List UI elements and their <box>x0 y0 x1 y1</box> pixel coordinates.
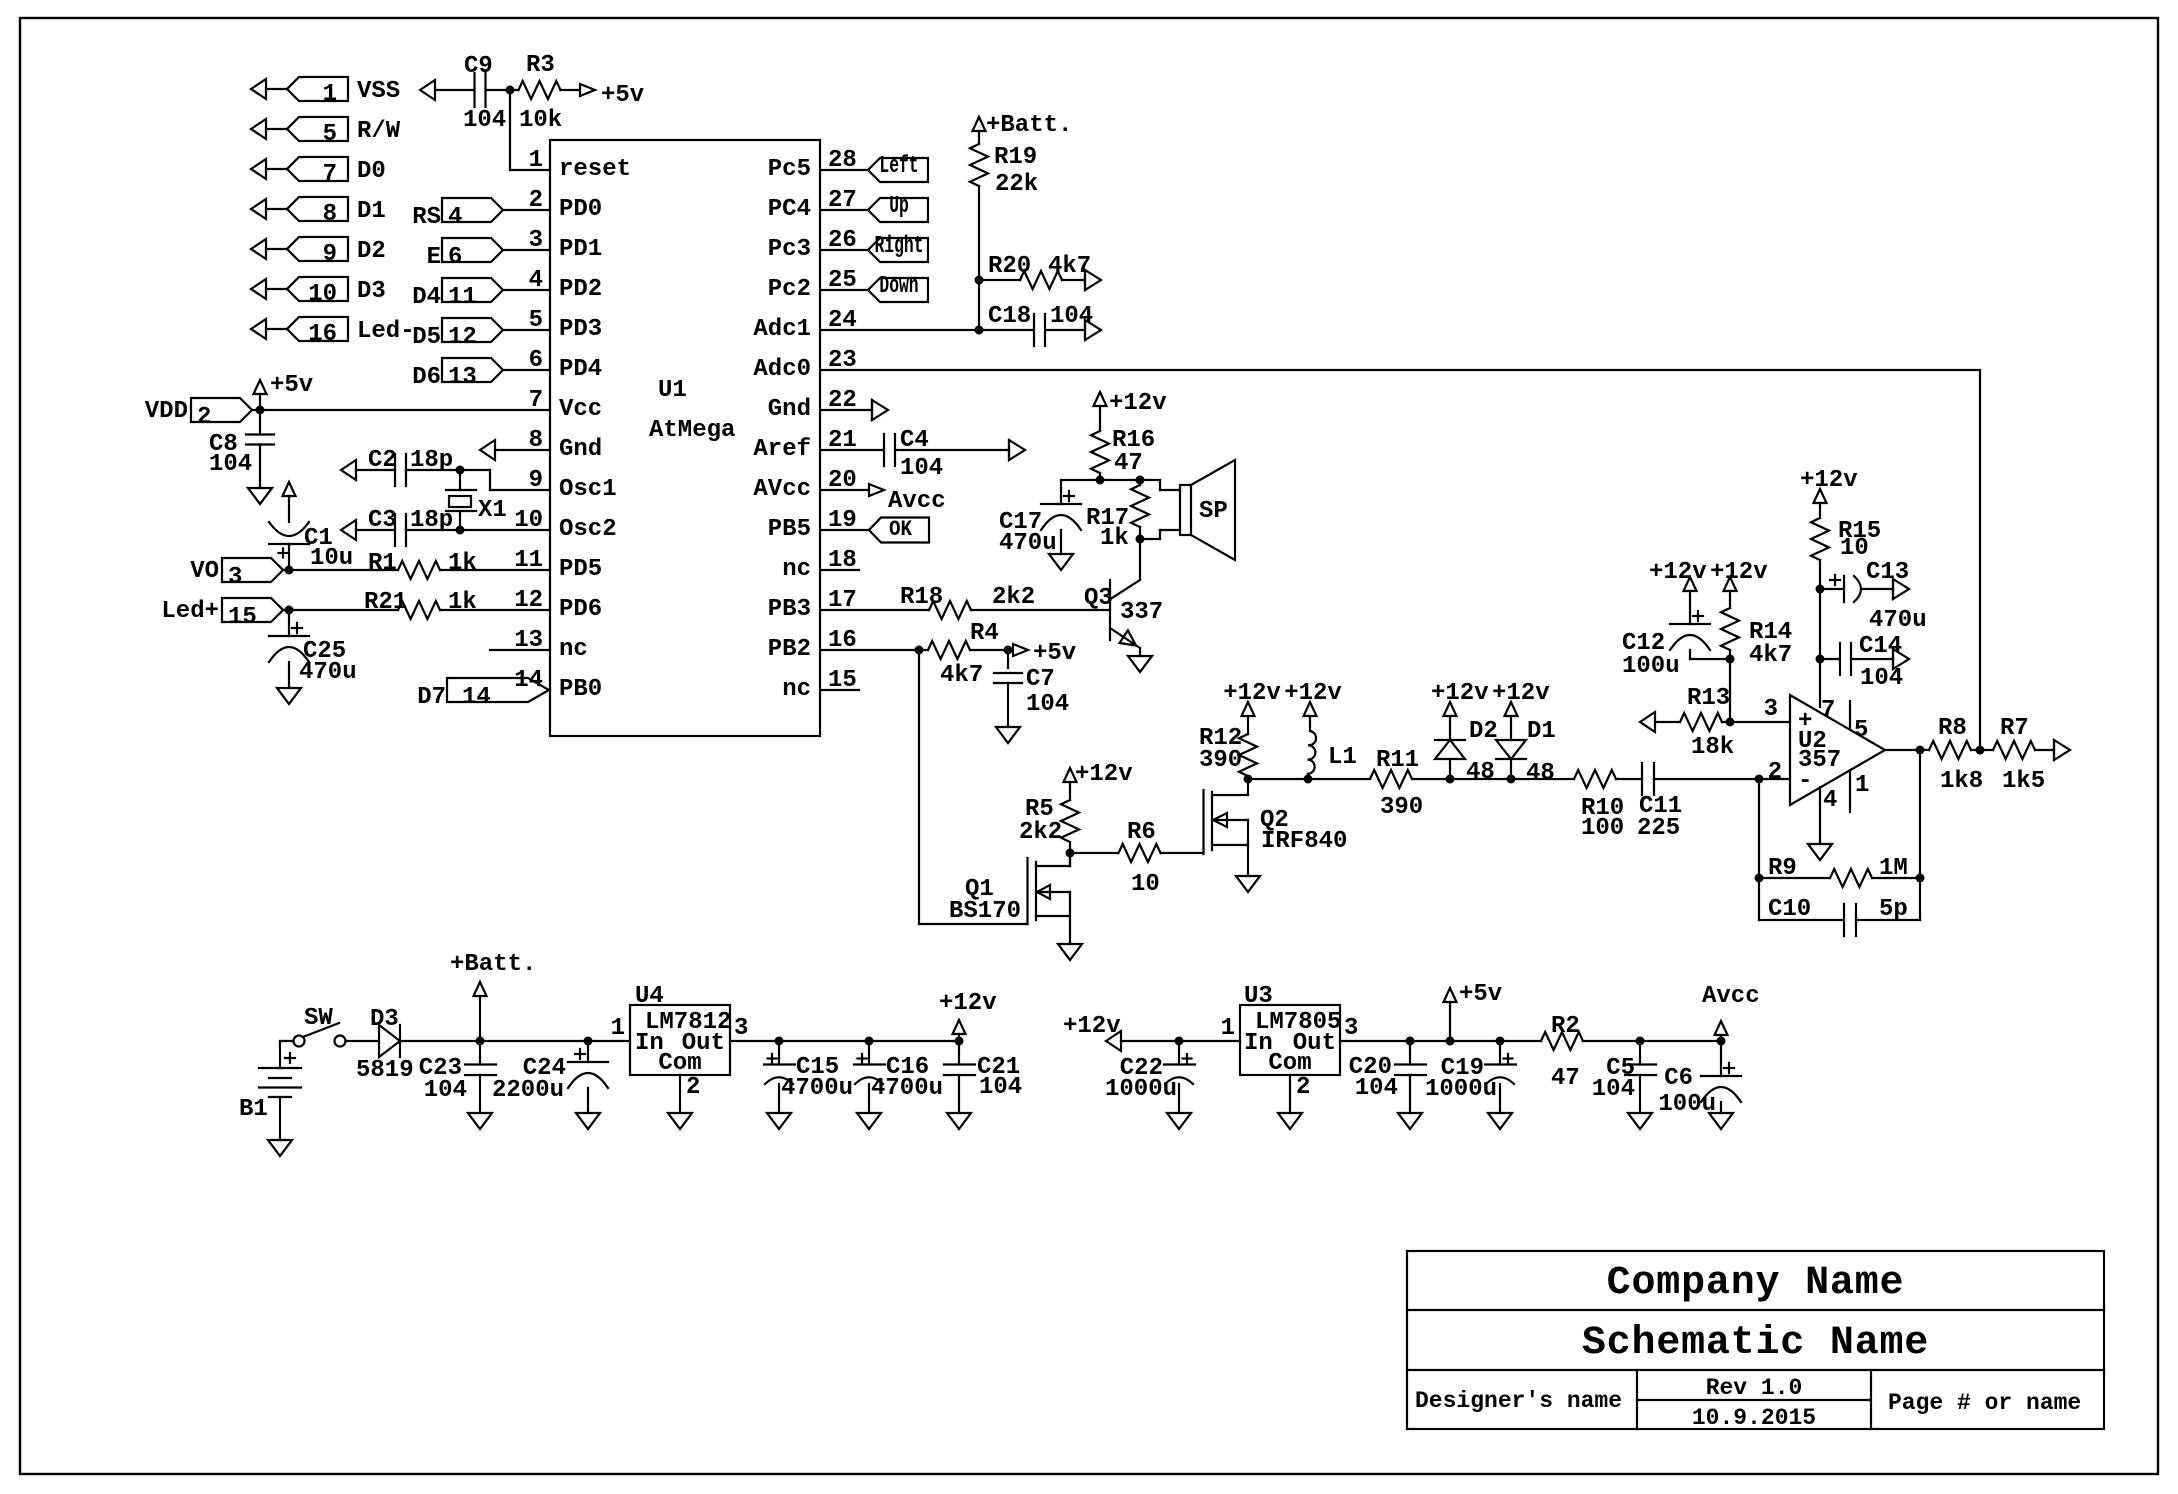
svg-text:Adc1: Adc1 <box>753 316 811 343</box>
tag Up <box>821 209 868 211</box>
connector pin 5 R/W <box>251 119 266 139</box>
resistor R9 <box>1830 869 1872 887</box>
svg-text:PD0: PD0 <box>559 196 602 223</box>
wire Adc1 pin24 <box>821 329 979 331</box>
svg-text:C10: C10 <box>1768 896 1811 923</box>
wire <box>1583 1040 1640 1042</box>
off-page arrow R20 <box>1085 270 1101 290</box>
node C19 <box>1496 1037 1505 1046</box>
connector pin 7 D0 <box>251 159 266 179</box>
wire <box>1070 852 1118 854</box>
svg-text:nc: nc <box>782 676 811 703</box>
resistor R14 <box>1721 608 1739 650</box>
svg-text:R21: R21 <box>364 589 407 616</box>
node R12/Q2 drain <box>1244 775 1253 784</box>
node PB2/R4/Q1gate <box>915 646 924 655</box>
regulator U4 LM7812 box <box>630 1005 730 1075</box>
speaker SP <box>1180 485 1191 535</box>
svg-text:R19: R19 <box>994 144 1037 171</box>
node C9/R3 junction <box>506 86 515 95</box>
capacitor C19 electrolytic <box>1485 1063 1516 1065</box>
svg-text:10: 10 <box>1840 535 1869 562</box>
power +12v arrow D2 <box>1444 702 1457 716</box>
svg-text:+12v: +12v <box>1492 680 1550 707</box>
wire <box>821 609 929 611</box>
inductor L1 <box>1309 731 1316 745</box>
svg-text:Gnd: Gnd <box>559 436 602 463</box>
svg-text:Left: Left <box>879 153 918 180</box>
svg-text:D3: D3 <box>357 278 386 305</box>
svg-text:D2: D2 <box>1469 718 1498 745</box>
power +12v arrow L1 <box>1304 702 1317 716</box>
svg-text:+12v: +12v <box>1063 1013 1121 1040</box>
node R4/C7 <box>1004 646 1013 655</box>
svg-text:16: 16 <box>308 321 337 348</box>
svg-text:10k: 10k <box>519 107 562 134</box>
off-page arrow C18 <box>1085 320 1101 340</box>
resistor R17 <box>1131 485 1149 527</box>
power +12v arrow R14 <box>1724 577 1737 591</box>
resistor R1 <box>398 561 440 579</box>
svg-text:Com: Com <box>658 1050 701 1077</box>
capacitor C10 <box>1759 919 1844 921</box>
resistor R2 <box>1541 1032 1583 1050</box>
svg-text:100u: 100u <box>1622 653 1680 680</box>
svg-text:104: 104 <box>979 1074 1022 1101</box>
svg-text:L1: L1 <box>1328 744 1357 771</box>
svg-text:PD2: PD2 <box>559 276 602 303</box>
svg-text:+12v: +12v <box>1431 680 1489 707</box>
svg-text:R4: R4 <box>970 620 999 647</box>
regulator U3 LM7805 box <box>1240 1005 1340 1075</box>
off-page arrow C4 <box>1009 440 1025 460</box>
svg-text:100u: 100u <box>1658 1091 1716 1118</box>
svg-text:11: 11 <box>448 284 477 311</box>
node R17/Q3/speaker <box>1136 535 1145 544</box>
svg-text:1: 1 <box>323 81 337 108</box>
svg-text:1: 1 <box>1855 772 1869 799</box>
svg-text:Right: Right <box>875 233 924 260</box>
ground C23 <box>468 1113 492 1129</box>
connector pin 10 D3 <box>251 279 266 299</box>
ground C17 <box>1049 554 1073 570</box>
node R5/R6/Q1 drain <box>1066 849 1075 858</box>
svg-text:1: 1 <box>611 1015 625 1042</box>
svg-text:nc: nc <box>559 636 588 663</box>
svg-text:+5v: +5v <box>1459 981 1502 1008</box>
svg-text:1k: 1k <box>448 589 477 616</box>
wire <box>978 280 980 330</box>
switch SW <box>294 1036 305 1047</box>
ground C5 <box>1628 1113 1652 1129</box>
off-page arrow R13 <box>1640 712 1655 732</box>
wire <box>1729 650 1731 722</box>
wire <box>1161 852 1204 854</box>
capacitor C18 <box>979 329 1034 331</box>
capacitor C1 electrolytic <box>269 522 309 536</box>
svg-text:4k7: 4k7 <box>1749 642 1792 669</box>
svg-text:Com: Com <box>1268 1050 1311 1077</box>
capacitor C4 <box>821 449 884 451</box>
svg-text:U4: U4 <box>635 983 664 1010</box>
svg-text:PD5: PD5 <box>559 556 602 583</box>
svg-text:R20: R20 <box>988 253 1031 280</box>
capacitor C12 electrolytic <box>1670 623 1710 625</box>
title vertical divider right <box>1870 1370 1872 1429</box>
ground C6 <box>1709 1113 1733 1129</box>
node C24 <box>584 1037 593 1046</box>
wire Adc0 pin23 <box>821 369 1980 371</box>
svg-text:C9: C9 <box>464 53 493 80</box>
wire speaker top <box>1140 479 1160 481</box>
svg-text:Up: Up <box>889 193 909 220</box>
ground C22 <box>1167 1113 1191 1129</box>
wire U4 out <box>730 1040 959 1042</box>
node C16 <box>865 1037 874 1046</box>
capacitor C11 <box>1641 763 1643 795</box>
svg-text:Down: Down <box>879 273 918 300</box>
node C5 <box>1636 1037 1645 1046</box>
title vertical divider left <box>1636 1370 1638 1429</box>
svg-text:PD1: PD1 <box>559 236 602 263</box>
node D2 anode <box>1446 775 1455 784</box>
svg-text:5: 5 <box>323 121 337 148</box>
wire <box>486 89 519 91</box>
svg-text:10.9.2015: 10.9.2015 <box>1692 1405 1816 1431</box>
svg-text:Rev 1.0: Rev 1.0 <box>1706 1375 1803 1401</box>
wire PB2 to Q1 gate <box>918 650 920 924</box>
capacitor C3 <box>394 514 396 546</box>
node VO/C1/R1 <box>285 566 294 575</box>
svg-text:+Batt.: +Batt. <box>450 951 536 978</box>
capacitor C16 electrolytic <box>854 1063 885 1065</box>
svg-text:+12v: +12v <box>1075 761 1133 788</box>
svg-text:Q3: Q3 <box>1084 585 1113 612</box>
off-page arrow output <box>2054 740 2070 760</box>
wire Q3 collector <box>1139 539 1141 580</box>
svg-text:R8: R8 <box>1938 715 1967 742</box>
off-page arrow C2 <box>341 460 356 480</box>
node R8/R7 feedback <box>1976 746 1985 755</box>
op-amp U2 triangle <box>1790 695 1885 805</box>
svg-text:225: 225 <box>1637 815 1680 842</box>
svg-text:2k2: 2k2 <box>1019 819 1062 846</box>
svg-text:5p: 5p <box>1879 896 1908 923</box>
power +Batt arrow <box>474 982 487 996</box>
off-page arrow Gnd pin22 <box>821 409 872 411</box>
svg-text:E: E <box>427 244 441 271</box>
svg-text:C7: C7 <box>1026 666 1055 693</box>
svg-text:D2: D2 <box>357 238 386 265</box>
diode D3 5819 <box>379 1025 400 1057</box>
wire <box>2035 749 2054 751</box>
resistor R12 <box>1239 734 1257 776</box>
svg-text:Adc0: Adc0 <box>753 356 811 383</box>
wire <box>895 449 1009 451</box>
svg-text:10: 10 <box>1131 871 1160 898</box>
svg-text:SP: SP <box>1199 498 1228 525</box>
node pin2 <box>1755 775 1764 784</box>
node C20 <box>1406 1037 1415 1046</box>
svg-text:3: 3 <box>1344 1015 1358 1042</box>
svg-text:PB3: PB3 <box>768 596 811 623</box>
svg-text:Osc1: Osc1 <box>559 476 617 503</box>
off-page arrow C3 <box>341 520 356 540</box>
wire <box>280 1040 294 1042</box>
svg-text:47: 47 <box>1551 1065 1580 1092</box>
capacitor C5 <box>1625 1063 1656 1065</box>
svg-text:9: 9 <box>323 241 337 268</box>
ground Q2 <box>1236 876 1260 892</box>
node C18/Adc1 <box>975 326 984 335</box>
wire <box>1308 778 1370 780</box>
svg-text:+12v: +12v <box>939 990 997 1017</box>
wire <box>1819 560 1821 707</box>
node Led+/R21/C25 <box>285 606 294 615</box>
svg-text:R/W: R/W <box>357 118 401 145</box>
svg-text:3: 3 <box>228 564 242 591</box>
ground Q3 <box>1128 656 1152 672</box>
svg-text:R13: R13 <box>1687 685 1730 712</box>
svg-text:C13: C13 <box>1866 559 1909 586</box>
svg-text:C3: C3 <box>368 507 397 534</box>
svg-text:AVcc: AVcc <box>753 476 811 503</box>
capacitor C13 electrolytic <box>1820 588 1844 590</box>
capacitor C2 <box>394 454 396 486</box>
power +12v arrow R16 <box>1094 392 1107 406</box>
wire Vcc pin7 <box>260 409 550 411</box>
svg-text:104: 104 <box>900 455 943 482</box>
svg-text:R2: R2 <box>1551 1013 1580 1040</box>
svg-text:2: 2 <box>686 1074 700 1101</box>
svg-text:+12v: +12v <box>1800 467 1858 494</box>
svg-text:+5v: +5v <box>601 82 644 109</box>
wire <box>1069 842 1071 866</box>
svg-text:RS: RS <box>412 204 441 231</box>
ground C25 <box>277 688 301 704</box>
tag OK <box>821 529 869 531</box>
node L1/R11 <box>1304 775 1313 784</box>
svg-text:BS170: BS170 <box>949 898 1021 925</box>
connector pin 1 VSS <box>251 79 266 99</box>
svg-text:104: 104 <box>209 451 252 478</box>
wire nc pin18 stub <box>821 569 859 571</box>
power arrow above C1 <box>283 482 296 496</box>
wire <box>1062 279 1085 281</box>
node C2/X1 <box>456 466 465 475</box>
node C6/Avcc <box>1717 1037 1726 1046</box>
svg-text:3: 3 <box>1764 696 1778 723</box>
resistor R18 <box>929 601 971 619</box>
svg-text:4: 4 <box>448 204 462 231</box>
power +12v arrow C12 <box>1684 577 1697 591</box>
ground C7 <box>996 727 1020 743</box>
svg-text:D1: D1 <box>1527 718 1556 745</box>
svg-text:PC4: PC4 <box>768 196 811 223</box>
svg-text:7: 7 <box>323 161 337 188</box>
wire <box>1046 329 1086 331</box>
svg-text:Osc2: Osc2 <box>559 516 617 543</box>
ic U1 AtMega box <box>550 140 820 736</box>
svg-text:nc: nc <box>782 556 811 583</box>
power +12v arrow above C21 <box>953 1020 966 1034</box>
svg-text:R9: R9 <box>1768 855 1797 882</box>
node C21 <box>955 1037 964 1046</box>
svg-text:2: 2 <box>1768 759 1782 786</box>
svg-text:C14: C14 <box>1859 633 1902 660</box>
svg-text:+5v: +5v <box>270 372 313 399</box>
off-page arrow C9 left <box>420 80 435 100</box>
svg-text:Gnd: Gnd <box>768 396 811 423</box>
capacitor C23 <box>465 1063 496 1065</box>
svg-text:+Batt.: +Batt. <box>986 112 1072 139</box>
resistor R20 <box>979 279 1020 281</box>
ground C20 <box>1398 1113 1422 1129</box>
svg-text:D0: D0 <box>357 158 386 185</box>
svg-text:+12v: +12v <box>1284 680 1342 707</box>
svg-text:OK: OK <box>889 517 913 542</box>
power +5v arrow <box>1013 644 1028 656</box>
node VDD junction <box>256 406 265 415</box>
svg-text:R11: R11 <box>1376 747 1419 774</box>
transistor Q2 IRF840 <box>1202 790 1204 854</box>
resistor R6 <box>1119 844 1161 862</box>
resistor R4 <box>928 641 970 659</box>
title rev/date divider <box>1637 1399 1871 1401</box>
svg-text:10u: 10u <box>310 545 353 572</box>
svg-text:PD6: PD6 <box>559 596 602 623</box>
wire <box>440 569 550 571</box>
node R9 right <box>1916 874 1925 883</box>
resistor R16 <box>1091 431 1109 473</box>
wire <box>1511 778 1574 780</box>
svg-text:VO: VO <box>190 558 219 585</box>
wire output <box>1885 749 1929 751</box>
wire <box>1872 877 1920 879</box>
resistor R21 <box>398 601 440 619</box>
ground C19 <box>1488 1113 1512 1129</box>
capacitor C15 electrolytic <box>764 1063 795 1065</box>
svg-text:14: 14 <box>514 667 543 694</box>
svg-text:1k8: 1k8 <box>1940 768 1983 795</box>
wire PB2 pin16 <box>821 649 919 651</box>
diode D2 <box>1435 739 1465 741</box>
op-amp pin5 stub <box>1849 701 1851 729</box>
svg-text:Pc2: Pc2 <box>768 276 811 303</box>
svg-text:Pc5: Pc5 <box>768 156 811 183</box>
capacitor C9 <box>473 73 475 107</box>
capacitor C8 <box>259 410 261 435</box>
svg-text:104: 104 <box>1050 303 1093 330</box>
wire <box>346 1040 380 1042</box>
capacitor C17 electrolytic <box>1060 480 1062 504</box>
svg-text:104: 104 <box>1026 691 1069 718</box>
tag Down <box>821 289 868 291</box>
svg-text:Designer's name: Designer's name <box>1415 1388 1622 1414</box>
svg-text:AtMega: AtMega <box>649 417 735 444</box>
power Avcc arrow pin20 <box>821 489 868 491</box>
transistor Q3 BC337 <box>1109 580 1111 640</box>
svg-text:R7: R7 <box>2000 715 2029 742</box>
node D3/C23 <box>476 1037 485 1046</box>
svg-text:Schematic Name: Schematic Name <box>1582 1321 1929 1366</box>
wire <box>1616 778 1642 780</box>
capacitor C25 electrolytic <box>288 610 290 636</box>
svg-text:6: 6 <box>448 244 462 271</box>
svg-text:1000u: 1000u <box>1105 1076 1177 1103</box>
svg-text:SW: SW <box>304 1005 333 1032</box>
svg-text:C18: C18 <box>988 303 1031 330</box>
op-amp pin1 stub <box>1849 770 1851 812</box>
svg-text:2: 2 <box>197 404 211 431</box>
svg-text:1000u: 1000u <box>1425 1076 1497 1103</box>
ground C24 <box>576 1113 600 1129</box>
wire <box>1654 778 1790 780</box>
resistor R5 <box>1061 800 1079 842</box>
svg-text:D1: D1 <box>357 198 386 225</box>
svg-text:reset: reset <box>559 156 631 183</box>
svg-text:4k7: 4k7 <box>940 662 983 689</box>
wire <box>978 186 980 280</box>
capacitor C14 <box>1820 658 1840 660</box>
svg-text:D5: D5 <box>412 324 441 351</box>
power +12v arrow D1 <box>1505 702 1518 716</box>
svg-text:104: 104 <box>463 107 506 134</box>
resistor R19 <box>970 144 988 186</box>
resistor R3 <box>519 81 561 99</box>
wire <box>561 89 580 91</box>
wire <box>1450 778 1511 780</box>
svg-text:+12v: +12v <box>1649 559 1707 586</box>
svg-text:D3: D3 <box>370 1006 399 1033</box>
connector pin 8 D1 <box>251 199 266 219</box>
svg-text:2200u: 2200u <box>492 1077 564 1104</box>
svg-text:Aref: Aref <box>753 436 811 463</box>
node C12/R14 <box>1726 655 1735 664</box>
svg-text:Avcc: Avcc <box>888 488 946 515</box>
svg-text:470u: 470u <box>1869 607 1927 634</box>
wire <box>435 89 475 91</box>
node C15 <box>775 1037 784 1046</box>
ground op-amp pin4 <box>1808 844 1832 860</box>
svg-text:B1: B1 <box>239 1096 268 1123</box>
crystal X1 <box>459 470 461 490</box>
svg-text:Avcc: Avcc <box>1702 983 1760 1010</box>
svg-text:Pc3: Pc3 <box>768 236 811 263</box>
ground C21 <box>947 1113 971 1129</box>
wire <box>971 609 1110 611</box>
title block frame <box>1407 1251 2104 1429</box>
capacitor C22 electrolytic <box>1164 1063 1195 1065</box>
svg-text:3: 3 <box>734 1015 748 1042</box>
svg-text:8: 8 <box>323 201 337 228</box>
svg-text:X1: X1 <box>478 497 507 524</box>
svg-text:2k2: 2k2 <box>992 584 1035 611</box>
resistor R10 <box>1574 770 1616 788</box>
wire <box>1412 778 1450 780</box>
capacitor C21 <box>944 1063 975 1065</box>
svg-text:VDD: VDD <box>145 398 188 425</box>
svg-text:104: 104 <box>1355 1075 1398 1102</box>
power +12v input arrow to U3 <box>1106 1031 1121 1051</box>
svg-text:22k: 22k <box>995 171 1038 198</box>
wire <box>1971 749 1993 751</box>
node C3/X1/Osc2 <box>456 526 465 535</box>
ground U3 <box>1278 1113 1302 1129</box>
op-amp pin4 ground lead <box>1819 787 1821 844</box>
power Avcc arrow <box>1715 1021 1728 1035</box>
svg-text:U1: U1 <box>658 377 687 404</box>
